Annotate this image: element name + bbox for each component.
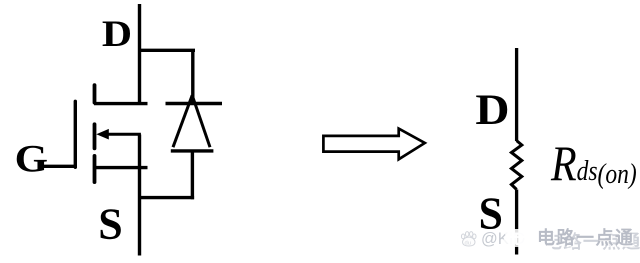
watermark text copy 1: [537, 224, 635, 250]
wire source stub horizontal: [94, 166, 148, 169]
transistor Q1 channel top bar: [93, 85, 97, 103]
wire body arrow line: [104, 133, 141, 136]
svg-text:G: G: [15, 136, 48, 180]
wire source/body vertical: [138, 135, 141, 256]
wire gate lead horizontal: [40, 165, 77, 168]
watermark handle text: [481, 230, 525, 249]
diode D1 triangle right leg: [192, 95, 210, 147]
wire drain terminal vertical: [138, 4, 141, 104]
wire right source vertical: [515, 190, 518, 255]
wire diode branch top vertical: [191, 50, 194, 103]
diode D1 anode bar: [171, 149, 214, 152]
body arrowhead pointing left: [96, 129, 109, 140]
wire right drain vertical: [515, 48, 518, 141]
svg-text:du: du: [464, 240, 470, 246]
resistor Rds(on) zigzag: [511, 141, 521, 190]
svg-text:D: D: [102, 13, 132, 54]
transistor Q1 channel middle bar: [93, 124, 97, 148]
watermark paw logo: [460, 231, 477, 248]
diode D1 cathode bar: [166, 102, 223, 105]
transistor Q1 channel bottom bar: [93, 156, 97, 182]
svg-text:S: S: [98, 200, 122, 249]
svg-text:Rds(on): Rds(on): [550, 136, 637, 191]
wire diode branch bottom horizontal: [140, 196, 195, 199]
wire diode branch top horizontal: [140, 49, 196, 52]
watermark white blobs over wire: [505, 229, 531, 238]
equivalence arrow (hollow, pointing right): [323, 129, 424, 160]
svg-text:D: D: [475, 86, 509, 134]
diode D1 triangle left leg: [173, 95, 192, 147]
transistor Q1 gate electrode bar: [74, 101, 77, 167]
wire diode branch bottom vertical: [191, 151, 194, 199]
watermark text copy 2 (offset): [544, 228, 640, 254]
wire drain stub horizontal: [94, 102, 148, 105]
